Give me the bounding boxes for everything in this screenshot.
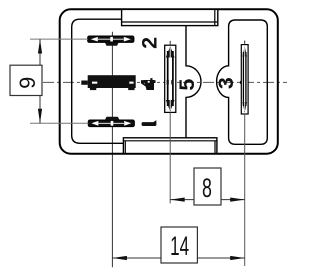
center wall with right bump (node 5 compartment): [186, 26, 201, 138]
extension line pin1 center: [30, 122, 89, 124]
pin 2 bump: [105, 42, 119, 46]
pin 2 blade: [88, 36, 134, 46]
svg-text:9: 9: [15, 77, 40, 89]
dimension 14 box: [161, 227, 197, 263]
bottom tab inner top line: [123, 140, 216, 142]
dimension 8 box: [194, 168, 221, 205]
bottom tab inner right line: [214, 141, 216, 154]
dimension 9 vertical line upper: [39, 39, 41, 65]
bottom tab inner left line: [124, 141, 126, 154]
dimension 14 arrow left: [112, 256, 127, 260]
pin 4 blade (solid): [81, 75, 135, 90]
extension line pin 3: [244, 114, 246, 266]
dimension 9 vertical line lower: [39, 96, 41, 124]
dimension 14 line right: [197, 257, 244, 259]
svg-text:5: 5: [175, 79, 199, 91]
bottom tab: [123, 138, 216, 154]
dimension 8 arrow right: [230, 198, 245, 202]
pin 3 blade: [240, 41, 248, 115]
label pin 1: [142, 120, 157, 126]
pin 1 bump: [105, 117, 120, 120]
dimension 8 line right: [221, 199, 245, 201]
centerline vertical through pins 1,2,4: [111, 32, 113, 267]
relay body outer outline: [60, 9, 278, 153]
dimension 14 arrow right: [230, 256, 245, 260]
top tab: [122, 9, 218, 25]
pin 5 tip tick: [169, 41, 171, 45]
pin 3 well with left bump: [217, 20, 268, 144]
pin 3 tip tick: [244, 41, 246, 45]
svg-text:14: 14: [170, 231, 189, 261]
svg-text:3: 3: [214, 77, 238, 89]
pin 3 left nub: [240, 81, 241, 84]
relay body inner outline (left): [72, 19, 124, 143]
dimension 8 arrow left: [170, 198, 185, 202]
svg-text:2: 2: [138, 37, 162, 49]
centerline horizontal through pin row: [43, 81, 287, 83]
top tab inner right line: [214, 9, 216, 25]
extension line pin 5: [169, 112, 171, 203]
dimension 8 line left: [170, 199, 194, 201]
pin 5 blade: [165, 41, 176, 113]
dimension 9 box: [10, 65, 42, 95]
dimension 9 arrow up: [38, 39, 42, 53]
extension line pin2 center: [30, 38, 88, 40]
dimension 14 line left: [112, 257, 161, 259]
dimension 9 arrow down: [38, 109, 42, 124]
pin 1 blade: [88, 117, 134, 127]
svg-text:8: 8: [202, 172, 212, 203]
top tab inner bottom line: [122, 21, 218, 23]
